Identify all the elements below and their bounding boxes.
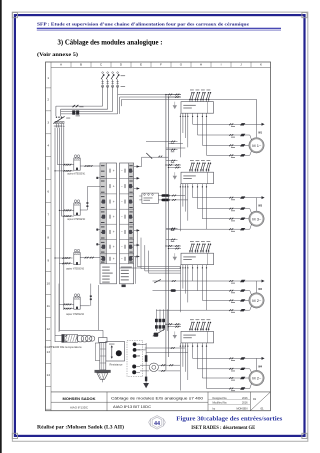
svg-text:−: − [121,257,123,261]
incoming supply lines L1 L2 L3 N [101,72,105,100]
wire sensor M2 left [59,209,73,211]
wire sensor M4 right riser [80,305,90,307]
ground symbol U2 [173,176,177,180]
svg-text:2016: 2016 [242,402,248,405]
svg-text:B: B [80,63,82,67]
svg-text:+: + [113,257,115,261]
left feeder bus B [58,128,60,331]
connector box X1 [142,193,159,203]
svg-text:(Voir annexe 5): (Voir annexe 5) [37,51,78,58]
wire pump outputs [158,364,180,366]
svg-text:12: 12 [46,327,50,331]
ground symbol U4 [173,335,177,339]
speed sensor capteur VITESSE M3 [74,249,80,264]
svg-text:D: D [120,63,123,67]
analog input module column AI [100,163,117,284]
svg-text:capteur VITESSE M2: capteur VITESSE M2 [67,218,86,221]
relay contacts left of U4 [153,309,167,337]
terminals above U4 [189,319,211,331]
switch subcircuit row6 [142,156,169,158]
shielded cable marks [161,194,169,197]
page number ornament [149,416,166,430]
block1 feed wires [118,94,181,96]
breaker output stubs [55,124,57,128]
temperature probe body [62,334,78,342]
svg-text:+: + [113,230,115,234]
svg-text:W2: W2 [258,288,262,291]
input contacts U1 [166,94,181,96]
wire module left stubs [96,177,100,179]
ground symbol U1 [173,105,177,109]
wire sensor M3 left [55,257,73,259]
svg-text:SFP : Etude et supervision d’u: SFP : Etude et supervision d’une chaine … [37,22,249,27]
terminal blob below AO column [122,285,126,288]
main breaker Q1 [53,116,70,126]
motor feed lines U2 [166,196,262,231]
wire bus drops [55,106,57,116]
svg-text:W4: W4 [258,365,262,368]
funnel [95,370,111,382]
wire loop to temperature sensor [59,284,103,338]
svg-text:10: 10 [46,281,50,285]
svg-text:11: 11 [47,304,50,308]
svg-text:CAPTEUR DE temperature: CAPTEUR DE temperature [45,345,83,349]
svg-text:−: − [121,230,123,234]
cable arrow W1 [256,124,258,137]
svg-text:+: + [113,200,115,204]
header rule [37,27,281,29]
channel block U1 [181,102,214,114]
svg-text:+: + [113,184,115,188]
pump device [140,363,158,371]
motor M4 [249,369,264,389]
svg-text:M 1~: M 1~ [252,144,261,148]
cable arrow W2 [256,198,258,211]
svg-text:M 2~: M 2~ [252,377,261,381]
wire col2 to X1 [139,195,142,197]
channel block U3 [181,253,214,265]
speed sensor capteur VITESSE M2 [74,200,80,215]
speed sensor capteur VITESSE M1 [74,155,80,170]
svg-text:−: − [121,200,123,204]
wire sensor M1 left [58,164,74,166]
ground symbol U3 [173,257,177,261]
svg-text:Figure 30:cablage des entrées/: Figure 30:cablage des entrées/sorties [176,416,283,423]
input contacts U3 [166,245,181,247]
terminals above U1 [189,90,211,102]
svg-text:capteur VITESSE M1: capteur VITESSE M1 [67,173,86,176]
wire sensor M3 right to module [80,257,100,259]
svg-text:01: 01 [253,397,257,401]
svg-text:44: 44 [154,421,160,427]
svg-text:−: − [121,169,123,173]
svg-text:ISET RADES : désartement GE: ISET RADES : désartement GE [191,425,255,431]
left feeder bus C [61,128,63,217]
wire block1 left bends [168,142,183,144]
svg-text:13: 13 [46,350,50,354]
down arrow [143,383,149,388]
bus line 3 [61,110,113,112]
thermowell probe [95,338,107,370]
sheet cell diagonal [250,392,270,411]
analog output module column AO [120,163,134,284]
svg-text:2: 2 [47,98,49,102]
wire X1 to cable [158,195,161,197]
fanout wires U1 [180,113,207,157]
motor M3 [249,291,264,311]
bus line 4 [61,113,118,115]
input contacts U4 [166,323,181,325]
channel block U4 [181,331,214,343]
bus line 2 [61,108,108,110]
svg-text:M 3~: M 3~ [252,217,261,221]
svg-text:G: G [180,63,183,67]
wire junction risers [140,343,188,383]
channel block U2 [181,172,214,184]
svg-text:AIAO 8*13DC: AIAO 8*13DC [70,406,88,409]
svg-text:Réalisé par :Mohsen Sadok (L3: Réalisé par :Mohsen Sadok (L3 AII) [37,423,124,430]
motor feed lines U4 [193,357,262,391]
svg-text:capteur VITESSE M3: capteur VITESSE M3 [66,267,85,270]
svg-text:I: I [221,63,222,67]
svg-text:Resistance: Resistance [110,363,124,366]
svg-text:7: 7 [47,212,49,216]
terminals above U2 [189,160,211,172]
svg-text:−: − [121,215,123,219]
cable arrow W4 [256,358,258,370]
svg-text:by: by [213,407,216,410]
left feeder bus A [54,128,56,342]
svg-text:3: 3 [47,121,49,125]
svg-text:F: F [160,63,162,67]
long supply wire to motor 1 [122,98,257,100]
svg-text:9: 9 [47,258,49,262]
input contacts U2 [166,164,181,166]
svg-text:2016: 2016 [242,397,248,400]
svg-text:−: − [121,184,123,188]
right vertical bus 2 [167,97,169,357]
motor feed lines U3 [153,279,262,312]
svg-text:1: 1 [47,76,49,80]
svg-text:W1: W1 [258,131,262,134]
svg-text:+: + [113,215,115,219]
svg-text:C: C [100,63,103,67]
svg-text:−: − [121,245,123,249]
motor M2 [249,209,264,230]
wire sensor M2 right riser [80,209,87,211]
motor M1 [249,135,264,155]
svg-text:+: + [113,245,115,249]
terminals above U3 [189,241,211,253]
cable arrow W3 [256,281,258,292]
bus stub contacts [146,141,178,143]
dashed junction region [127,341,143,377]
right vertical bus 1 [165,95,167,370]
module AI spec text [102,267,113,283]
svg-text:H: H [200,63,202,67]
svg-text:MOHSEN SADOK: MOHSEN SADOK [63,397,96,401]
wire supply bends to buses [102,100,104,106]
module AO spec text [121,267,132,281]
svg-text:8: 8 [47,235,49,239]
fanout wires U3 [180,265,207,313]
svg-text:4: 4 [47,144,49,148]
svg-text:14: 14 [46,373,50,377]
junction terminals [132,342,140,374]
svg-text:+: + [113,169,115,173]
svg-text:Modified Na: Modified Na [213,402,228,405]
svg-text:6: 6 [47,189,49,193]
supply labels [121,74,126,77]
fanout wires U4 [180,343,207,391]
svg-text:W3: W3 [258,205,262,208]
bus line 1 [56,105,103,107]
svg-text:01: 01 [261,406,265,410]
svg-text:MOHSEN: MOHSEN [237,407,248,410]
svg-text:5: 5 [47,167,49,171]
svg-text:3) Câblage des modules analog: 3) Câblage des modules analogique : [58,38,163,46]
svg-text:J: J [240,63,242,67]
schematic outer frame [46,62,271,411]
wire sensor M4 left [59,303,73,305]
temperature probe contacts [63,335,68,337]
svg-text:E: E [140,63,142,67]
page edge strip [0,0,2,453]
resistance box [106,342,125,362]
fuse 1F2 [72,110,75,114]
svg-text:M 2~: M 2~ [252,299,261,303]
svg-text:A: A [60,63,63,67]
svg-text:Câblage de modules E/S analogi: Câblage de modules E/S analogique s7 400 [111,396,203,400]
motor feed lines U1 [193,123,262,158]
svg-text:Designed Na: Designed Na [213,397,228,400]
left feeder bus D [63,128,65,309]
wire sensor M1 right to module [80,165,100,167]
wire col2 bottom to U4 [120,257,142,284]
fuse 1F1 [72,105,76,107]
fanout wires U2 [180,184,207,232]
speed sensor capteur VITESSE M4 [74,294,80,309]
title block [51,391,271,393]
nested loop wires to U3 [137,230,181,273]
svg-text:capteur VITESSE M4: capteur VITESSE M4 [66,313,85,316]
temperature sensor coils [77,335,95,342]
schematic grid bands [51,66,271,68]
wire module right stubs with arrows [134,166,140,168]
svg-text:K: K [260,63,263,67]
svg-text:AIAO 8*13 BIT 10DC: AIAO 8*13 BIT 10DC [113,405,152,409]
